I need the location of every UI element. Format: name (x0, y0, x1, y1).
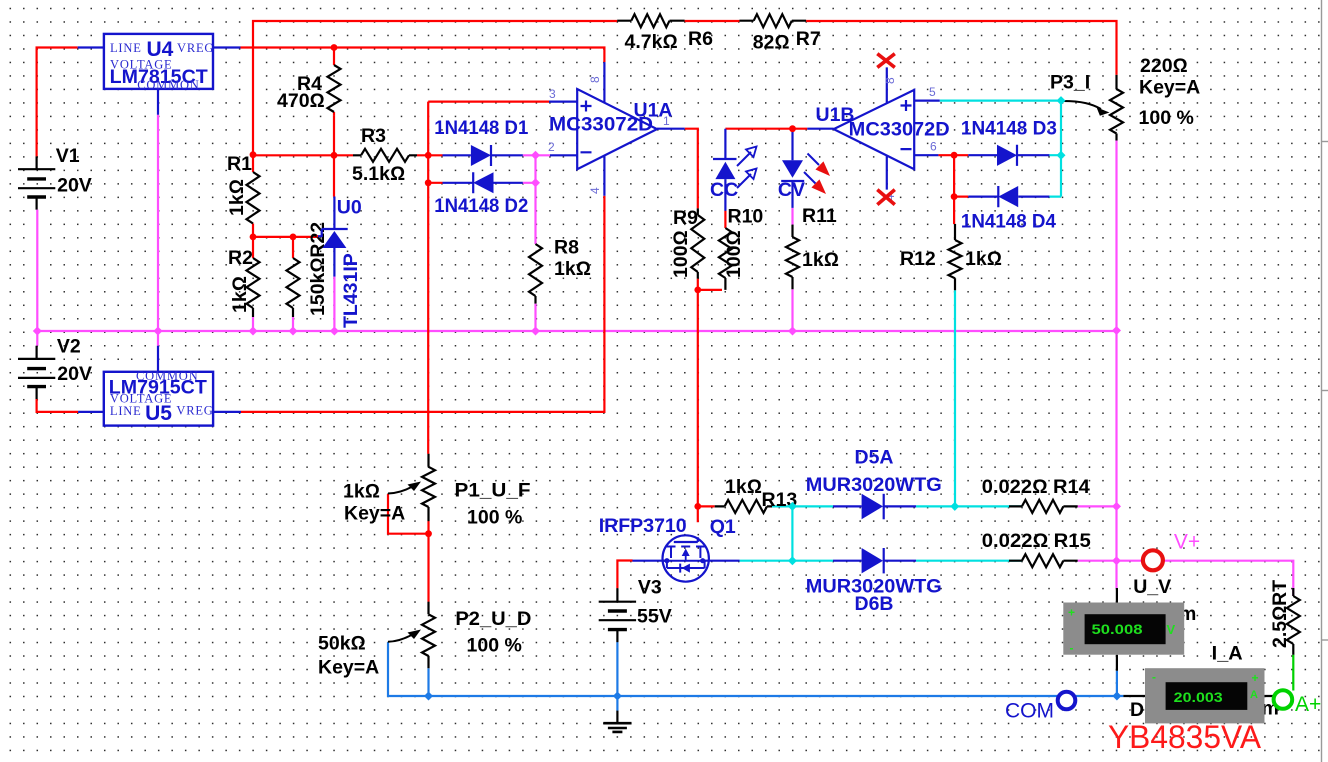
wire TL431 ref junction row y237 (253, 236, 317, 238)
svg-text:+: + (1252, 671, 1259, 685)
svg-text:4: 4 (588, 187, 602, 194)
svg-text:R8: R8 (554, 237, 579, 259)
svg-text:100 %: 100 % (467, 507, 522, 529)
potentiometer P2_U_D 50k (318, 602, 531, 679)
terminal V+ (1143, 531, 1200, 571)
wire U1B pin stubs (807, 67, 939, 189)
wire pin2 net D1/D2 to R8 (magenta) (523, 155, 550, 236)
wire cyan R12 down to R14 row (954, 290, 956, 507)
wire U5 VREG to U1A pin4 (241, 196, 604, 412)
svg-text:R3: R3 (361, 125, 386, 147)
resistor R11 1k (786, 205, 839, 331)
battery V3 55V (599, 577, 672, 643)
svg-text:R1: R1 (227, 153, 252, 175)
svg-text:Key=A: Key=A (318, 657, 379, 679)
svg-text:1N4148 D2: 1N4148 D2 (434, 195, 528, 217)
svg-text:100Ω: 100Ω (670, 230, 692, 278)
wire R15 to V+ terminal to RT (1078, 561, 1294, 596)
svg-text:V+: V+ (1174, 531, 1200, 554)
potentiometer P1_U_F 1k (343, 454, 531, 529)
svg-text:U0: U0 (337, 197, 362, 219)
svg-text:20.003: 20.003 (1174, 689, 1223, 705)
svg-text:220Ω: 220Ω (1140, 55, 1188, 77)
svg-text:1: 1 (663, 114, 670, 128)
svg-text:4.7kΩ: 4.7kΩ (625, 31, 678, 53)
op-amp U1B MC33072D (816, 77, 950, 201)
svg-text:100Ω: 100Ω (723, 230, 745, 278)
svg-text:V1: V1 (56, 145, 80, 167)
svg-text:P1_U_F: P1_U_F (455, 480, 531, 502)
op-amp U1A MC33072D (548, 76, 673, 194)
resistor R8 1k (529, 236, 591, 331)
svg-text:CV: CV (778, 179, 805, 201)
wire V2 positive to U5 LINE (37, 399, 79, 412)
svg-text:3: 3 (549, 87, 556, 101)
diode D6B MUR3020WTG (806, 548, 942, 615)
LED CC (710, 129, 757, 211)
svg-text:1kΩ: 1kΩ (343, 481, 380, 503)
wire U4 COMMON to bus to U5 COMMON (157, 115, 159, 346)
resistor R3 5.1k (352, 125, 417, 185)
diode D2 1N4148 (434, 172, 528, 217)
svg-text:P3_I: P3_I (1050, 72, 1090, 94)
no-connect X pin7 U1B (877, 54, 895, 68)
svg-text:YB4835VA: YB4835VA (1108, 719, 1262, 755)
wire magenta ground-reference bus y=331 (37, 330, 1116, 332)
resistor R2 1k (228, 237, 260, 331)
svg-text:20V: 20V (57, 363, 92, 385)
resistor R7 82 (739, 14, 820, 53)
svg-text:Key=A: Key=A (344, 503, 405, 525)
wire P3 bottom rail down to voltmeter (magenta) (1115, 141, 1117, 589)
wire U4 pin stubs (78, 48, 241, 115)
svg-text:R12: R12 (900, 248, 936, 270)
wire cyan P3 wiper net from U1B pin5/D3/D4 (940, 101, 1061, 197)
wire cyan Q1 source to D6B to R15 (740, 560, 1022, 562)
svg-text:R6: R6 (688, 28, 713, 50)
MOSFET Q1 IRFP3710 (599, 515, 740, 582)
svg-text:50.008: 50.008 (1092, 621, 1143, 637)
junction cyan dots (788, 96, 1066, 565)
wire blue ground bus bottom (388, 642, 1123, 696)
svg-text:R11: R11 (802, 205, 837, 227)
regulator U4 LM7815CT (104, 34, 214, 92)
wire U1A output down to R9 (685, 129, 698, 209)
wire R13 left stub (698, 505, 715, 507)
resistor R9 100 (670, 207, 704, 279)
svg-text:CC: CC (710, 179, 738, 201)
diode D3 1N4148 (961, 118, 1057, 166)
svg-text:R2: R2 (228, 247, 253, 269)
battery V2 20V (18, 336, 92, 400)
svg-text:A: A (1250, 689, 1258, 701)
svg-text:8: 8 (883, 77, 897, 84)
svg-text:R10: R10 (728, 206, 764, 228)
wire A+ green from RT (1292, 655, 1294, 691)
junction blue dots (424, 692, 1121, 701)
svg-text:50kΩ: 50kΩ (318, 633, 366, 655)
svg-text:2: 2 (548, 140, 555, 154)
svg-text:V3: V3 (638, 577, 662, 599)
svg-text:-: - (1070, 641, 1074, 655)
wire feedback rail x428 down to P1 (428, 102, 549, 454)
svg-text:1kΩ: 1kΩ (802, 249, 839, 271)
svg-text:V: V (1167, 622, 1176, 637)
svg-text:5.1kΩ: 5.1kΩ (352, 163, 405, 185)
resistor R1 1k (226, 153, 260, 237)
wire U1A pin stubs (549, 62, 685, 196)
svg-text:1N4148 D4: 1N4148 D4 (961, 211, 1056, 233)
terminal A+ (1274, 690, 1322, 716)
wire U4 LINE input from V1 (37, 48, 78, 157)
svg-text:COMMON: COMMON (137, 78, 199, 92)
wire V3 negative to bus and ground (616, 642, 618, 711)
wire voltmeter negative to bus (1116, 671, 1118, 696)
resistor R15 0.022 (982, 530, 1091, 567)
wire P2 bottom to bus (427, 668, 429, 696)
svg-text:I_A: I_A (1212, 643, 1243, 665)
svg-text:MC33072D: MC33072D (849, 119, 950, 141)
diode D1 1N4148 (434, 117, 528, 166)
svg-text:V2: V2 (57, 336, 81, 358)
no-connect X pin4 U1B (877, 190, 895, 205)
svg-text:LINE: LINE (110, 404, 142, 418)
resistor R6 4.7k (617, 14, 713, 53)
wire R14 right to rail (1078, 505, 1117, 507)
diode D4 1N4148 (961, 186, 1056, 233)
svg-text:A+: A+ (1295, 693, 1321, 716)
voltmeter U_V (1063, 576, 1184, 655)
wire voltmeter leads black (1116, 588, 1118, 671)
regulator U5 LM7915CT (104, 369, 214, 426)
potentiometer P3_I 220 (1050, 55, 1200, 141)
junction red dots (250, 44, 958, 537)
svg-text:LINE: LINE (110, 41, 142, 55)
wire U4 VREG output to R4 and U1A pin8 (241, 48, 605, 63)
resistor R12 1k (900, 224, 1002, 290)
svg-text:100 %: 100 % (1139, 107, 1194, 129)
svg-text:55V: 55V (637, 606, 672, 628)
svg-text:1kΩ: 1kΩ (226, 179, 248, 216)
svg-text:Q1: Q1 (710, 516, 736, 538)
svg-text:MUR3020WTG: MUR3020WTG (806, 474, 942, 496)
svg-text:Key=A: Key=A (1139, 77, 1200, 99)
wire P1 wiper tie loop (388, 494, 429, 602)
svg-text:TL431IP: TL431IP (340, 253, 362, 328)
svg-text:20V: 20V (57, 175, 92, 197)
wire U5 pin stubs (78, 346, 241, 412)
resistor R10 100 (719, 206, 764, 290)
svg-text:U_V: U_V (1133, 576, 1171, 598)
LED CV (778, 129, 829, 208)
svg-text:1kΩ: 1kΩ (229, 276, 251, 313)
svg-text:0.022Ω R14: 0.022Ω R14 (982, 476, 1090, 498)
wire cyan gate net R13 to D5A (772, 506, 1022, 560)
diode D5A MUR3020WTG (806, 447, 942, 520)
resistor R4 470 (277, 48, 341, 116)
svg-text:6: 6 (930, 140, 937, 154)
wire top red rail R1-top to P3 (253, 21, 1117, 155)
svg-text:VREG: VREG (177, 41, 214, 55)
svg-text:D6B: D6B (855, 593, 894, 615)
svg-text:1kΩ: 1kΩ (554, 258, 591, 280)
ground (603, 711, 631, 732)
svg-text:1kΩ: 1kΩ (965, 248, 1002, 270)
svg-text:100 %: 100 % (467, 635, 522, 657)
svg-text:82Ω: 82Ω (753, 32, 790, 54)
svg-text:U5: U5 (145, 402, 172, 425)
resistor R22 150k (287, 222, 330, 331)
resistor R13 1k (715, 476, 798, 513)
terminal COM (1005, 692, 1075, 723)
wire V1 negative to bus (36, 210, 38, 346)
wire ammeter leads black (1123, 695, 1273, 697)
battery V1 20V (18, 145, 92, 210)
wire CC/CV tops to U1B output (725, 128, 807, 130)
svg-text:0.022Ω R15: 0.022Ω R15 (982, 530, 1091, 552)
svg-text:COM: COM (1005, 700, 1054, 723)
junction magenta dots (33, 151, 1121, 565)
svg-text:470Ω: 470Ω (277, 90, 325, 112)
svg-text:1kΩ: 1kΩ (725, 476, 762, 498)
wire R9/R10 bottom junction down to R13 (698, 279, 722, 523)
svg-text:R9: R9 (673, 207, 698, 229)
wire node y155 row R3/R4/TL431 (253, 116, 428, 197)
resistor RT 2.5 (1269, 580, 1300, 655)
sheet border right (1322, 0, 1328, 762)
wire U1B pin6 to D3/D4/R12 (938, 155, 968, 224)
svg-text:IRFP3710: IRFP3710 (599, 515, 687, 537)
ammeter I_A (1145, 643, 1265, 724)
resistor R14 0.022 (982, 476, 1090, 513)
svg-text:1N4148 D1: 1N4148 D1 (434, 117, 528, 139)
svg-text:+: + (1068, 606, 1075, 620)
svg-text:-: - (1152, 670, 1156, 684)
svg-text:VREG: VREG (176, 403, 213, 417)
svg-text:5: 5 (929, 85, 936, 99)
shunt regulator U0 TL431IP (317, 197, 362, 332)
svg-text:R7: R7 (796, 28, 821, 50)
svg-text:P2_U_D: P2_U_D (455, 608, 531, 630)
wire V3 positive to Q1 (617, 561, 632, 589)
svg-text:1N4148 D3: 1N4148 D3 (961, 118, 1057, 140)
svg-text:8: 8 (588, 76, 602, 83)
svg-text:D5A: D5A (855, 447, 894, 469)
svg-text:2.5ΩRT: 2.5ΩRT (1269, 580, 1291, 648)
